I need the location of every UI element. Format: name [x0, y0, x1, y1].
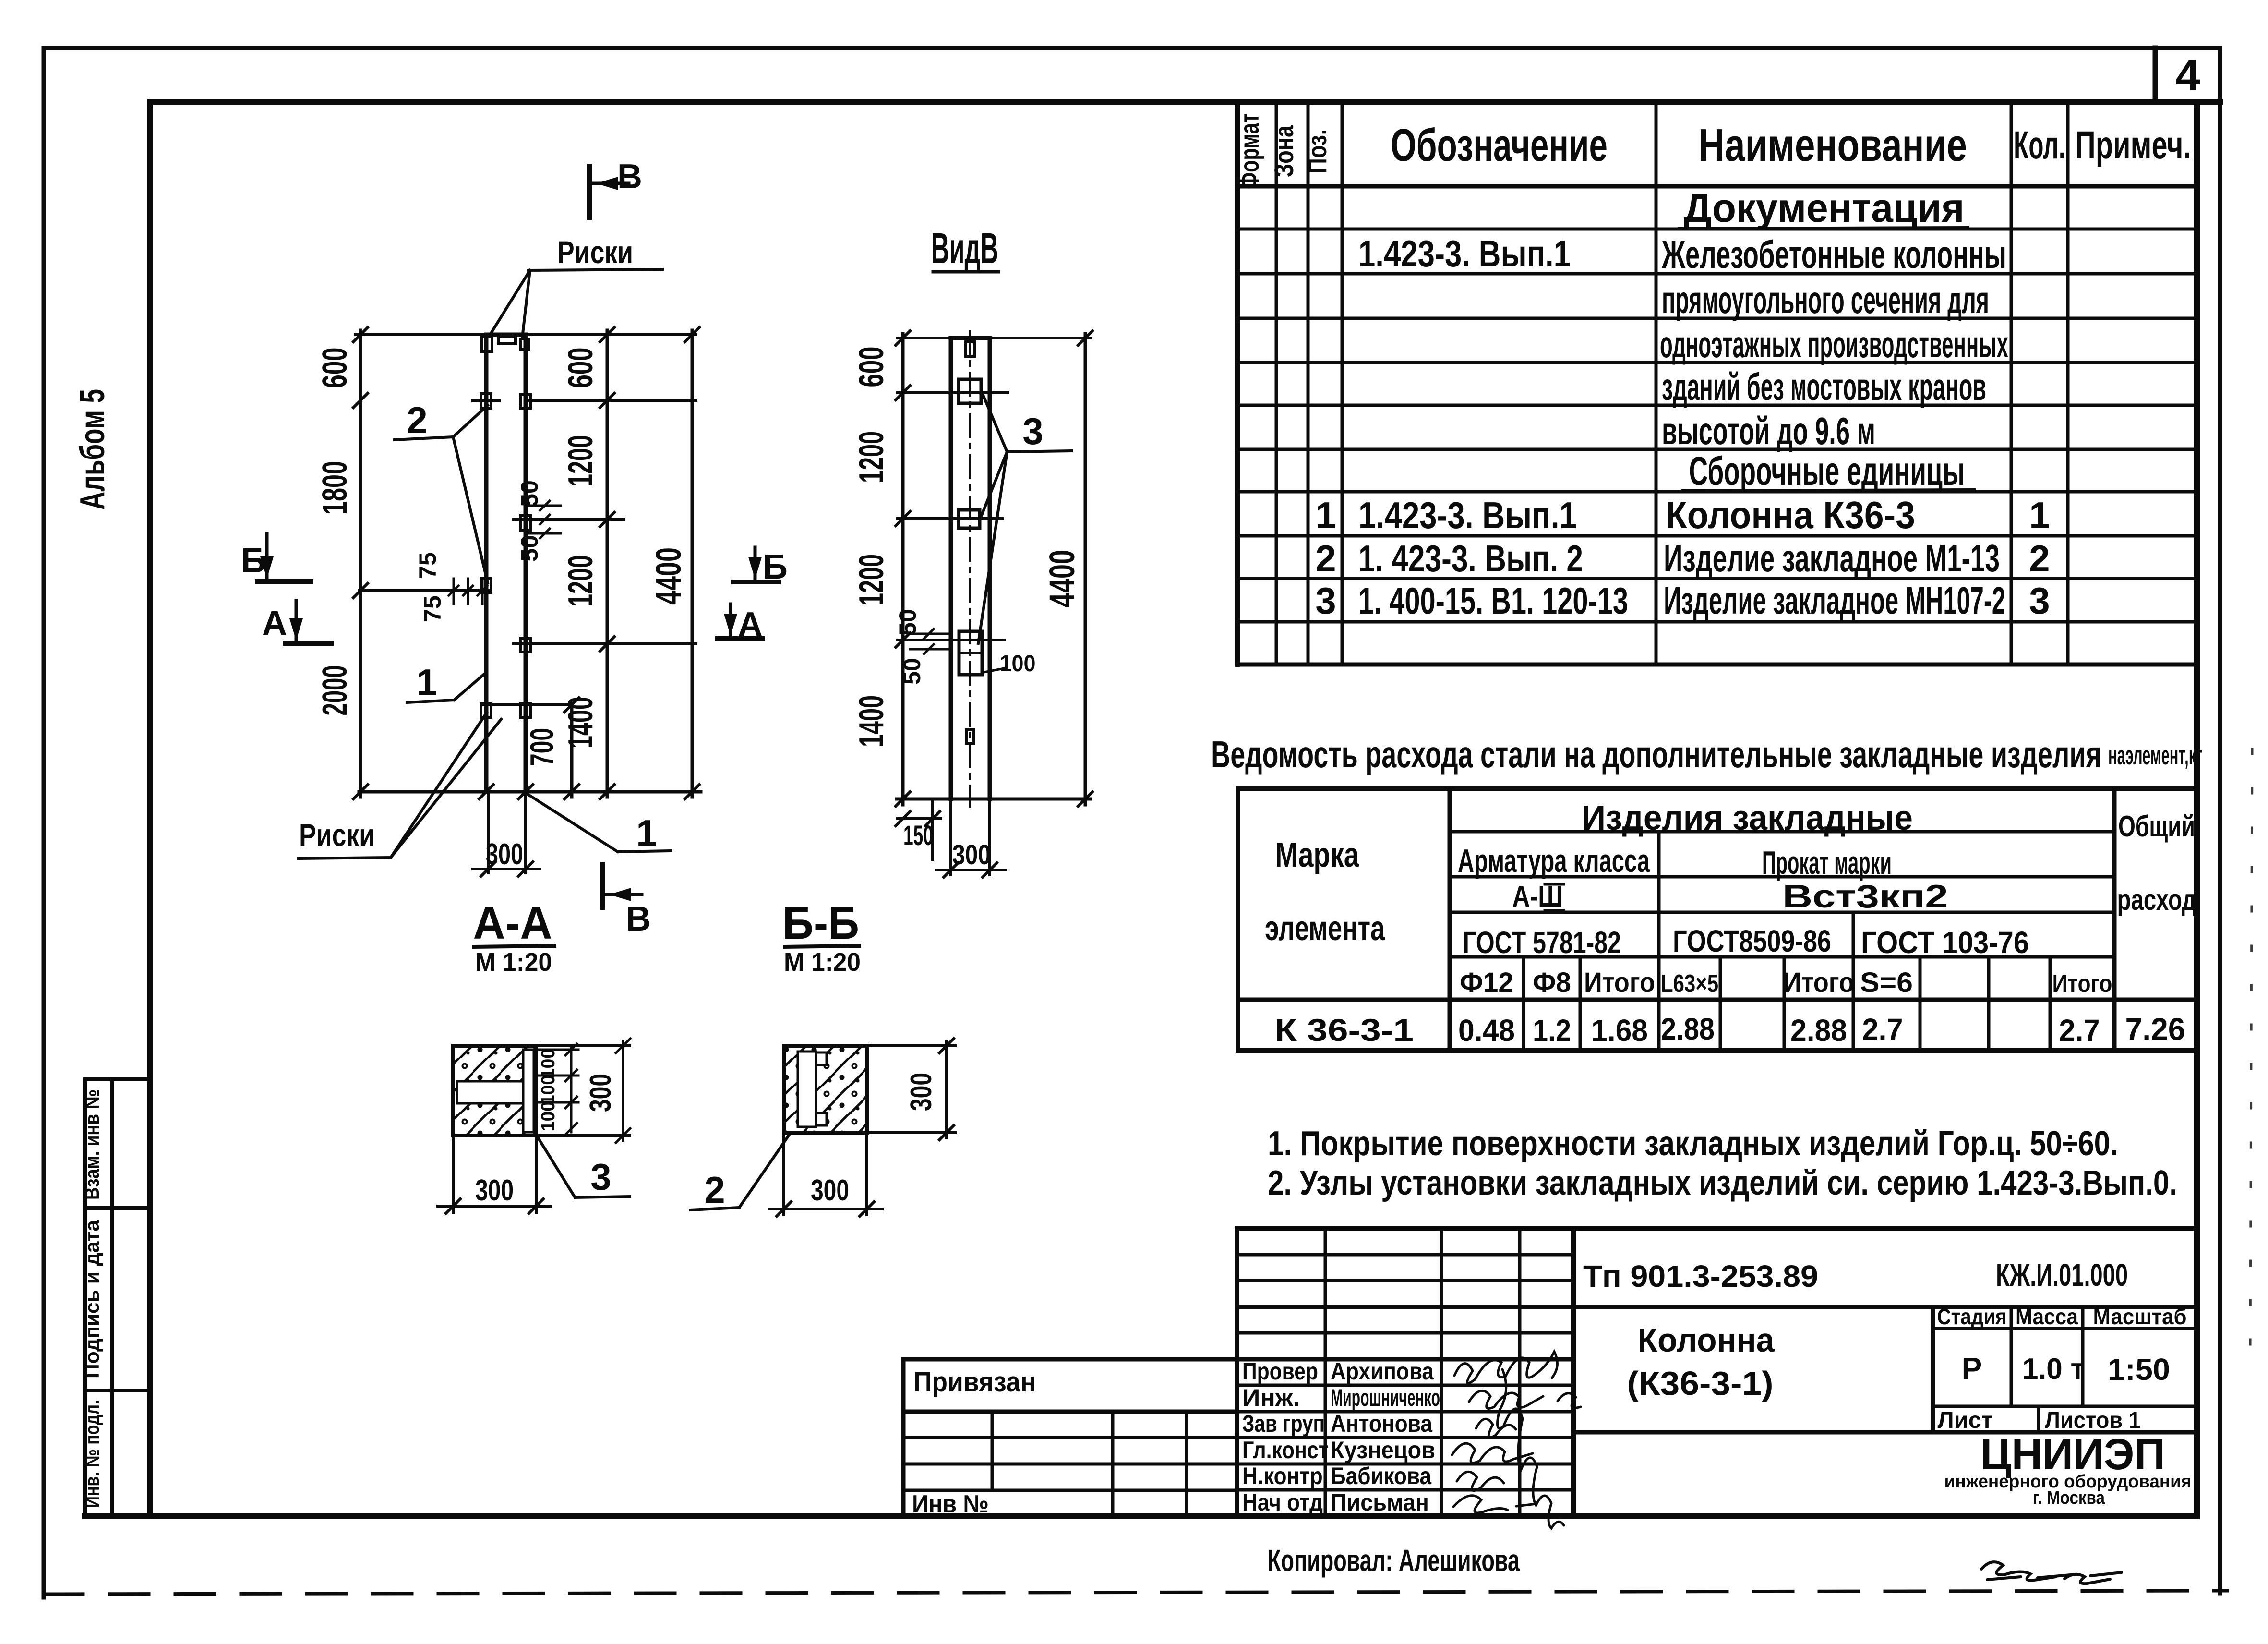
embedded plates MN107-2	[959, 342, 982, 743]
dim 50 50 viewB	[910, 629, 948, 654]
centerline	[969, 331, 971, 807]
svg-text:Поз.: Поз.	[1302, 129, 1332, 173]
section B-B concrete square	[784, 1046, 867, 1133]
title block signature grid	[1237, 1228, 2197, 1516]
svg-text:Вст3кп2: Вст3кп2	[1783, 878, 1948, 915]
svg-text:1200: 1200	[852, 431, 891, 483]
svg-text:прямоугольного сечения для: прямоугольного сечения для	[1662, 278, 1989, 321]
svg-text:300: 300	[952, 839, 991, 870]
svg-text:расход: расход	[2117, 883, 2196, 917]
svg-text:2000: 2000	[316, 665, 354, 716]
wire levels viewB	[898, 391, 1008, 394]
svg-text:наэлемент,кг: наэлемент,кг	[2108, 740, 2202, 770]
svg-text:М 1:20: М 1:20	[475, 948, 552, 977]
svg-text:Тп 901.3-253.89: Тп 901.3-253.89	[1583, 1259, 1818, 1293]
steel usage table grid	[1238, 788, 2197, 1051]
svg-text:1: 1	[416, 661, 437, 703]
dimension lines vertical	[359, 330, 362, 797]
section mark B right (letter Б)	[733, 547, 779, 582]
svg-text:Изделия закладные: Изделия закладные	[1582, 799, 1913, 837]
svg-text:Копировал: Алешикова: Копировал: Алешикова	[1268, 1543, 1520, 1578]
svg-text:Инв №: Инв №	[912, 1490, 989, 1518]
svg-text:Общий: Общий	[2118, 810, 2195, 843]
svg-text:3: 3	[590, 1156, 611, 1198]
svg-text:высотой до 9.6 м: высотой до 9.6 м	[1662, 410, 1875, 452]
svg-text:Ведомость расхода стали на доп: Ведомость расхода стали на дополнительны…	[1211, 733, 2101, 775]
dim 300 below A-A	[438, 1136, 551, 1213]
ticks viewB	[896, 331, 1092, 806]
svg-text:100: 100	[538, 1075, 559, 1105]
svg-text:Гл.конст: Гл.конст	[1242, 1437, 1329, 1463]
svg-text:Риски: Риски	[557, 234, 633, 270]
svg-text:Документация: Документация	[1684, 185, 1965, 230]
svg-text:Провер: Провер	[1242, 1358, 1318, 1385]
specification table grid	[1237, 102, 2197, 665]
svg-text:одноэтажных производственных: одноэтажных производственных	[1660, 323, 2008, 365]
svg-text:75: 75	[414, 552, 441, 579]
dim 300 right of B-B	[867, 1039, 955, 1140]
wire baseline viewB	[897, 798, 1091, 801]
section mark A left	[286, 601, 331, 643]
svg-text:Архипова: Архипова	[1331, 1358, 1434, 1385]
svg-text:1800: 1800	[316, 461, 354, 515]
column elevation view	[355, 330, 701, 797]
svg-text:1200: 1200	[562, 555, 600, 607]
svg-text:1.2: 1.2	[1533, 1013, 1571, 1048]
svg-text:2. Узлы установки закладн: 2. Узлы установки закладных изделий си. …	[1268, 1164, 2177, 1202]
handwritten signatures	[1452, 1352, 1581, 1528]
dim 300 below B-B	[769, 1133, 882, 1216]
svg-text:КЖ.И.01.000: КЖ.И.01.000	[1996, 1257, 2128, 1293]
svg-text:100: 100	[538, 1049, 559, 1078]
svg-text:Р: Р	[1962, 1351, 1982, 1386]
svg-text:Арматура класса: Арматура класса	[1458, 843, 1650, 879]
svg-text:100: 100	[1000, 651, 1036, 677]
svg-text:1:50: 1:50	[2108, 1352, 2170, 1387]
svg-text:2.7: 2.7	[1862, 1012, 1903, 1047]
svg-text:Прокат марки: Прокат марки	[1762, 845, 1892, 881]
svg-text:2.7: 2.7	[2059, 1013, 2100, 1048]
svg-text:L63×5: L63×5	[1661, 970, 1718, 998]
svg-text:3: 3	[1022, 410, 1043, 452]
svg-text:1200: 1200	[852, 554, 891, 606]
svg-text:Бабикова: Бабикова	[1331, 1463, 1432, 1489]
scan artifact dotted line right margin	[2250, 749, 2252, 1349]
section A-A concrete square	[453, 1046, 536, 1136]
svg-text:Кол.: Кол.	[2014, 123, 2065, 167]
svg-text:Мирошниченко: Мирошниченко	[1331, 1384, 1440, 1411]
svg-text:Обозначение: Обозначение	[1391, 120, 1608, 171]
column body side	[949, 338, 953, 799]
svg-text:700: 700	[524, 728, 560, 766]
svg-text:1200: 1200	[562, 435, 600, 487]
svg-text:Итого: Итого	[1584, 967, 1655, 998]
svg-text:Альбом 5: Альбом 5	[73, 389, 112, 510]
wire top ext viewB	[898, 337, 951, 339]
svg-text:Привязан: Привязан	[913, 1366, 1036, 1398]
svg-text:1.423-3. Вып.1: 1.423-3. Вып.1	[1358, 232, 1571, 275]
svg-text:300: 300	[811, 1174, 849, 1207]
svg-text:1: 1	[2029, 494, 2050, 536]
svg-text:Колонна К36-3: Колонна К36-3	[1666, 494, 1915, 536]
svg-text:2.88: 2.88	[1661, 1012, 1715, 1046]
svg-text:Нач отд: Нач отд	[1242, 1489, 1323, 1516]
svg-text:М 1:20: М 1:20	[784, 948, 861, 977]
svg-text:2: 2	[2029, 537, 2050, 580]
svg-text:Колонна: Колонна	[1638, 1321, 1775, 1359]
svg-text:2.88: 2.88	[1790, 1013, 1847, 1048]
svg-text:Антонова: Антонова	[1331, 1410, 1433, 1437]
svg-text:Зона: Зона	[1269, 125, 1299, 177]
svg-text:В: В	[626, 900, 651, 938]
svg-text:Примеч.: Примеч.	[2075, 123, 2191, 167]
svg-text:1.68: 1.68	[1591, 1013, 1648, 1048]
svg-text:3: 3	[1315, 580, 1336, 622]
dims right of A-A (100x3 and 300)	[536, 1039, 630, 1143]
svg-text:4: 4	[2175, 51, 2200, 100]
svg-text:1: 1	[636, 812, 657, 854]
section mark B top	[589, 166, 629, 218]
privyazan box	[903, 1359, 1237, 1516]
svg-text:1. 423-3. Вып. 2: 1. 423-3. Вып. 2	[1358, 537, 1583, 580]
svg-text:ГОСТ8509-86: ГОСТ8509-86	[1673, 924, 1831, 958]
signature row labels	[1242, 1358, 1440, 1516]
svg-text:Инж.: Инж.	[1242, 1384, 1300, 1411]
svg-text:1: 1	[1315, 494, 1336, 536]
svg-text:Наименование: Наименование	[1698, 120, 1967, 171]
section mark B left (letter Б)	[257, 534, 311, 581]
svg-text:150: 150	[903, 820, 933, 851]
svg-text:4400: 4400	[648, 547, 688, 605]
svg-text:50: 50	[516, 535, 543, 562]
svg-text:зданий без мостовых кранов: зданий без мостовых кранов	[1662, 365, 1986, 408]
svg-text:S=6: S=6	[1860, 967, 1913, 998]
svg-text:ГОСТ 103-76: ГОСТ 103-76	[1861, 925, 2029, 960]
svg-text:(К36-3-1): (К36-3-1)	[1627, 1365, 1774, 1402]
svg-text:Б: Б	[241, 542, 266, 580]
svg-text:Инв. № подл.: Инв. № подл.	[81, 1400, 103, 1508]
svg-text:Н.контр.: Н.контр.	[1242, 1463, 1329, 1489]
svg-text:Б: Б	[763, 548, 788, 586]
svg-text:0.48: 0.48	[1458, 1013, 1515, 1048]
svg-text:А: А	[262, 604, 287, 642]
svg-text:ГОСТ 5781-82: ГОСТ 5781-82	[1463, 925, 1621, 960]
svg-text:2: 2	[407, 399, 427, 441]
svg-text:Кузнецов: Кузнецов	[1331, 1437, 1435, 1463]
svg-text:600: 600	[316, 348, 354, 388]
handwritten mark bottom right	[1981, 1562, 2122, 1584]
svg-text:300: 300	[475, 1174, 514, 1207]
svg-text:Зав груп: Зав груп	[1242, 1410, 1325, 1437]
svg-text:Ф8: Ф8	[1533, 967, 1571, 998]
dim 150 below viewB	[896, 799, 941, 859]
svg-text:1. Покрытие поверхности: 1. Покрытие поверхности закладных издели…	[1268, 1124, 2118, 1163]
svg-text:1400: 1400	[562, 697, 600, 749]
svg-text:2: 2	[704, 1169, 725, 1211]
dim lines viewB	[901, 334, 905, 805]
svg-text:Итого: Итого	[1783, 967, 1854, 998]
section mark A right	[718, 604, 762, 639]
svg-text:50: 50	[894, 609, 921, 636]
svg-text:Железобетонные колонны: Железобетонные колонны	[1661, 233, 2006, 277]
svg-text:1. 400-15. В1. 120-13: 1. 400-15. В1. 120-13	[1358, 580, 1628, 622]
svg-text:Масса: Масса	[2016, 1304, 2078, 1329]
column body	[484, 335, 489, 792]
svg-text:Подпись и дата: Подпись и дата	[81, 1220, 103, 1378]
embedded plate marks M1-13	[473, 336, 530, 717]
svg-text:К 36-3-1: К 36-3-1	[1274, 1012, 1414, 1048]
svg-text:Риски: Риски	[299, 817, 375, 853]
svg-text:7.26: 7.26	[2125, 1011, 2185, 1047]
svg-text:ВидВ: ВидВ	[931, 225, 998, 273]
svg-text:4400: 4400	[1042, 550, 1082, 607]
svg-text:Письман: Письман	[1331, 1489, 1429, 1516]
svg-text:100: 100	[538, 1101, 559, 1131]
svg-text:Б-Б: Б-Б	[782, 897, 859, 949]
dim 300 below viewB	[936, 799, 1006, 877]
svg-text:3: 3	[2029, 580, 2050, 622]
svg-text:1.0 т: 1.0 т	[2022, 1353, 2085, 1386]
svg-text:Стадия: Стадия	[1937, 1304, 2007, 1329]
left margin attribute boxes	[85, 1079, 150, 1516]
svg-text:300: 300	[905, 1073, 938, 1111]
svg-text:Марка: Марка	[1275, 836, 1360, 874]
svg-text:Формат: Формат	[1234, 113, 1264, 189]
wire baseline	[359, 790, 701, 794]
section mark B bottom	[602, 864, 642, 907]
dim 300 bottom	[473, 792, 540, 876]
wire top extension	[355, 333, 486, 336]
svg-text:Изделие закладное МН107-2: Изделие закладное МН107-2	[1664, 579, 2005, 622]
svg-text:Взам. инв №: Взам. инв №	[81, 1089, 103, 1200]
channel plate in B-B	[798, 1052, 816, 1127]
svg-text:50: 50	[516, 480, 543, 507]
svg-text:2: 2	[1315, 537, 1336, 580]
svg-text:Итого: Итого	[2052, 970, 2112, 998]
svg-text:600: 600	[562, 348, 600, 388]
svg-text:Сборочные единицы: Сборочные единицы	[1689, 448, 1965, 494]
svg-text:Масштаб: Масштаб	[2093, 1304, 2187, 1329]
svg-text:Ф12: Ф12	[1460, 967, 1513, 998]
svg-text:1400: 1400	[852, 695, 891, 747]
title block right part	[1573, 1307, 2197, 1432]
dimension ticks	[353, 327, 699, 799]
svg-text:г. Москва: г. Москва	[2033, 1488, 2105, 1508]
dim 50 50 mid plate	[527, 501, 561, 538]
svg-text:1.423-3. Вып.1: 1.423-3. Вып.1	[1358, 494, 1577, 536]
dim 75 75	[449, 579, 487, 604]
wire underline viewB	[933, 270, 998, 274]
svg-text:300: 300	[584, 1074, 617, 1112]
svg-text:элемента: элемента	[1265, 909, 1385, 948]
svg-text:600: 600	[852, 347, 891, 387]
svg-text:А-А: А-А	[473, 897, 552, 949]
svg-text:75: 75	[419, 595, 446, 622]
svg-text:50: 50	[899, 658, 925, 685]
wire level lines	[526, 399, 696, 402]
svg-text:300: 300	[486, 838, 523, 871]
channel plate in A-A	[457, 1081, 529, 1103]
svg-text:А: А	[738, 605, 763, 644]
svg-text:Изделие закладное М1-13: Изделие закладное М1-13	[1664, 537, 2000, 580]
svg-text:В: В	[617, 157, 642, 196]
